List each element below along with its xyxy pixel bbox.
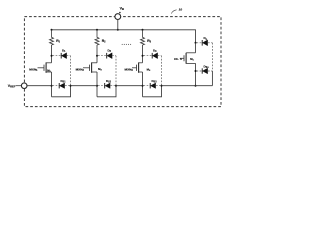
svg-text:R1: R1 (56, 39, 60, 44)
svg-text:Dn: Dn (204, 36, 208, 41)
svg-text:R3: R3 (147, 39, 151, 44)
svg-text:DSn: DSn (204, 64, 210, 69)
drain node junction branch3 (142, 55, 144, 57)
diode D2 (98, 79, 116, 88)
wire resistor to drain node (51, 45, 53, 63)
junction U to bus branch1 (70, 85, 72, 87)
junction source crossing bus branch1 (51, 85, 53, 87)
svg-text:M2: M2 (98, 67, 102, 72)
svg-text:M3: M3 (147, 68, 151, 73)
resistor R3 (141, 30, 152, 45)
wire from VB terminal to top bus (117, 19, 119, 29)
wire M3 source down (142, 72, 144, 97)
drain node junction branch2 (96, 55, 98, 57)
top bus wire (52, 30, 196, 43)
junction node top bus branch1 (51, 29, 53, 31)
svg-text:10: 10 (179, 8, 183, 12)
drain node junction branch1 (51, 55, 53, 57)
svg-text:Ch. n: Ch. n (174, 57, 182, 61)
svg-text:VREF: VREF (8, 84, 16, 89)
source bus wire (branch2 to branch3) (116, 85, 143, 87)
transistor Mn (174, 53, 196, 64)
source U wire branch1 (52, 86, 71, 97)
junction Mn source to bus (195, 85, 197, 87)
junction on top bus (117, 29, 119, 31)
drain node junction branch n (195, 42, 197, 44)
svg-text:DS1: DS1 (61, 79, 67, 84)
junction U to bus branch3 (161, 85, 163, 87)
diode Dn (source) (197, 64, 213, 73)
wire Mn source down to bus (195, 63, 197, 85)
wire bus corner to Mn drain (195, 43, 197, 53)
junction U to bus branch2 (115, 85, 117, 87)
transistor M2 (76, 62, 103, 72)
transistor M3 (125, 62, 151, 72)
svg-text:Mn: Mn (190, 57, 194, 62)
resistor R2 (95, 30, 106, 45)
diode D3 (144, 79, 162, 88)
body diode DB1 (dash-dot drain to source) (53, 49, 71, 86)
svg-text:D2: D2 (108, 49, 112, 54)
figure reference numeral 10 with leader (171, 8, 182, 14)
body diode DBn (197, 36, 213, 71)
source U wire branch3 (143, 86, 162, 97)
junction source crossing bus branch3 (142, 85, 144, 87)
transistor M1 (29, 62, 51, 72)
svg-text:R2: R2 (102, 39, 106, 44)
junction source crossing bus branch2 (96, 85, 98, 87)
junction node top bus branch3 (142, 29, 144, 31)
wire resistor to drain node (96, 45, 98, 63)
svg-text:DS2: DS2 (106, 79, 112, 84)
resistor R1 (50, 30, 61, 45)
svg-text:D1: D1 (62, 49, 66, 54)
wire M1 source down (51, 72, 53, 97)
junction node top bus branch2 (96, 29, 98, 31)
junction Mn source node (195, 70, 197, 72)
svg-text:D3: D3 (153, 49, 157, 54)
wire resistor to drain node (142, 45, 144, 63)
ellipsis dots (repeated stages) (122, 44, 132, 45)
body diode DB3 (144, 49, 162, 86)
svg-text:DS3: DS3 (152, 79, 158, 84)
diode D1 (dash-dot on source bus) (53, 79, 71, 88)
wire M2 source down (96, 72, 98, 97)
source bus wire (branch3 to bus end) (162, 85, 213, 87)
svg-text:MXN1: MXN1 (29, 67, 38, 72)
dashed enclosure border (24, 17, 221, 107)
node VB terminal (top) (115, 6, 124, 19)
source bus wire (left terminal to branch1) (27, 85, 52, 87)
svg-text:VB: VB (120, 6, 124, 11)
node VREF terminal (left) (8, 83, 27, 89)
source bus wire (branch1 to branch2) (71, 85, 98, 87)
wire diode n right side down to bus end (211, 71, 213, 86)
source U wire branch2 (97, 86, 116, 97)
body diode DB2 (98, 49, 116, 86)
